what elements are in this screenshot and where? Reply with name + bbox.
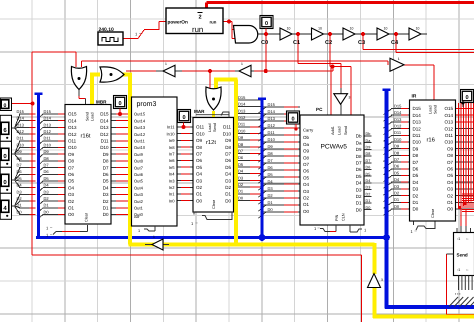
svg-text:D6: D6	[268, 165, 274, 170]
svg-text:D8: D8	[44, 156, 50, 161]
svg-text:240,10: 240,10	[99, 27, 115, 33]
svg-text:O9: O9	[447, 146, 454, 151]
svg-text:D3: D3	[413, 187, 419, 192]
svg-text:D5: D5	[238, 162, 244, 167]
svg-text:D14: D14	[100, 118, 109, 123]
svg-text:D11: D11	[394, 130, 402, 135]
svg-text:O5: O5	[447, 173, 454, 178]
svg-text:MAR: MAR	[194, 109, 205, 114]
svg-text:CLN: CLN	[342, 213, 346, 221]
svg-text:D4: D4	[238, 169, 244, 174]
svg-text:D7: D7	[366, 159, 371, 163]
svg-text:O7: O7	[68, 165, 75, 170]
svg-text:O5: O5	[196, 165, 203, 170]
svg-text:Send: Send	[213, 123, 217, 132]
svg-text:D0: D0	[103, 212, 109, 217]
svg-text:D1: D1	[225, 192, 231, 197]
svg-text:Ob: Ob	[303, 135, 310, 140]
svg-text:O6: O6	[196, 158, 203, 163]
svg-text:O0: O0	[68, 212, 75, 217]
svg-text:D7: D7	[17, 163, 23, 168]
svg-text:O4: O4	[303, 182, 310, 187]
svg-text:In11: In11	[167, 125, 175, 130]
svg-text:O14: O14	[444, 113, 453, 118]
svg-text:O2: O2	[447, 193, 454, 198]
svg-text:O2: O2	[303, 196, 310, 201]
svg-text:In1: In1	[169, 192, 175, 197]
svg-text:D9: D9	[225, 138, 231, 143]
svg-text:In10: In10	[167, 131, 176, 136]
svg-text:O11: O11	[196, 125, 205, 130]
svg-text:O0: O0	[303, 209, 310, 214]
svg-text:D15: D15	[17, 109, 25, 114]
svg-text:O8: O8	[196, 145, 203, 150]
svg-text:O8: O8	[303, 155, 310, 160]
svg-text:powerOn: powerOn	[168, 19, 188, 24]
svg-text:D11: D11	[223, 125, 231, 130]
svg-text:Send: Send	[434, 105, 438, 114]
svg-text:D6: D6	[103, 172, 109, 177]
svg-text:10: 10	[384, 27, 388, 31]
svg-text:D4: D4	[17, 183, 23, 188]
svg-text:D4: D4	[356, 181, 362, 186]
svg-text:3: 3	[381, 278, 383, 282]
svg-text:D2: D2	[225, 185, 231, 190]
svg-text:D11: D11	[238, 122, 246, 127]
svg-text:1: 1	[153, 235, 155, 239]
svg-text:Da: Da	[356, 140, 362, 145]
svg-text:D7: D7	[238, 149, 244, 154]
svg-text:D5: D5	[268, 172, 274, 177]
svg-text:Db: Db	[356, 134, 362, 139]
svg-text:Out9: Out9	[134, 152, 144, 157]
svg-text:D7: D7	[356, 161, 362, 166]
svg-text:D1: D1	[413, 200, 419, 205]
svg-text:D15: D15	[100, 112, 109, 117]
svg-text:In3: In3	[169, 178, 175, 183]
svg-text:D6: D6	[225, 158, 231, 163]
svg-text:D14: D14	[413, 113, 422, 118]
svg-text:O6: O6	[447, 167, 454, 172]
svg-text:1: 1	[241, 62, 243, 66]
svg-text:O7: O7	[447, 160, 454, 165]
svg-text:O14: O14	[68, 118, 77, 123]
svg-text:D1: D1	[366, 199, 371, 203]
svg-text:D8: D8	[366, 152, 371, 156]
svg-text:D11: D11	[413, 133, 421, 138]
svg-text:D10: D10	[238, 128, 246, 133]
svg-text:0: 0	[4, 103, 7, 109]
svg-text:O12: O12	[68, 132, 77, 137]
svg-text:10: 10	[350, 27, 354, 31]
svg-text:O7: O7	[303, 162, 310, 167]
svg-text:10: 10	[416, 27, 420, 31]
svg-text:O10: O10	[196, 131, 205, 136]
svg-text:D11: D11	[17, 136, 25, 141]
svg-text:D15: D15	[268, 102, 276, 107]
svg-text:Oa: Oa	[303, 142, 310, 147]
svg-text:Out15: Out15	[134, 112, 146, 117]
svg-text:D6: D6	[356, 167, 362, 172]
svg-text:D1: D1	[44, 203, 50, 208]
svg-text:In7: In7	[169, 152, 175, 157]
svg-text:D3: D3	[238, 175, 244, 180]
svg-text:D11: D11	[268, 130, 276, 135]
svg-text:O10: O10	[68, 145, 77, 150]
svg-text:C3: C3	[358, 40, 365, 46]
svg-text:O9: O9	[68, 152, 75, 157]
svg-text:In6: In6	[169, 158, 175, 163]
svg-text:D9: D9	[413, 146, 419, 151]
svg-text:O12: O12	[444, 126, 453, 131]
svg-text:0: 0	[182, 115, 185, 121]
svg-text:D12: D12	[268, 123, 276, 128]
svg-text:Out7: Out7	[134, 165, 144, 170]
svg-text:D4: D4	[44, 183, 50, 188]
svg-text:run: run	[210, 19, 217, 24]
svg-text:C4: C4	[391, 40, 399, 46]
svg-text:D12: D12	[238, 115, 246, 120]
svg-text:1: 1	[165, 62, 167, 66]
svg-text:D13: D13	[394, 117, 402, 122]
svg-text:D2: D2	[413, 193, 419, 198]
svg-text:O1: O1	[303, 202, 310, 207]
svg-text:D7: D7	[103, 165, 109, 170]
svg-text:prom3: prom3	[137, 101, 157, 108]
svg-text:D5: D5	[225, 165, 231, 170]
svg-text:In4: In4	[169, 172, 175, 177]
svg-text:Out11: Out11	[134, 139, 146, 144]
svg-text:D12: D12	[394, 124, 402, 129]
svg-text:D0: D0	[356, 207, 362, 212]
svg-text:Out14: Out14	[134, 118, 146, 123]
svg-text:O3: O3	[303, 189, 310, 194]
svg-text:D15: D15	[413, 106, 422, 111]
svg-text:D8: D8	[103, 159, 109, 164]
svg-text:C0: C0	[261, 40, 268, 46]
svg-text:O15: O15	[68, 112, 77, 117]
svg-text:O0: O0	[447, 207, 454, 212]
svg-text:Send: Send	[344, 126, 348, 135]
svg-text:D1: D1	[394, 197, 400, 202]
svg-text:Out4: Out4	[134, 185, 144, 190]
svg-text:D13: D13	[100, 125, 109, 130]
svg-text:D6: D6	[44, 169, 50, 174]
svg-text:D7: D7	[413, 160, 419, 165]
svg-text:O2: O2	[68, 199, 75, 204]
svg-text:D1: D1	[238, 189, 244, 194]
svg-text:Clear: Clear	[212, 199, 216, 209]
svg-text:In5: In5	[169, 165, 175, 170]
svg-text:D6: D6	[413, 167, 419, 172]
svg-text:D3: D3	[103, 192, 109, 197]
svg-text:1: 1	[138, 229, 140, 233]
svg-text:MBR: MBR	[96, 100, 107, 105]
svg-text:D10: D10	[44, 142, 52, 147]
svg-text:D8: D8	[268, 151, 274, 156]
svg-text:D14: D14	[44, 116, 52, 121]
svg-text:O1: O1	[447, 200, 454, 205]
svg-text:O1: O1	[196, 192, 203, 197]
svg-text:D11: D11	[101, 139, 109, 144]
svg-text:D10: D10	[17, 142, 25, 147]
svg-text:D3: D3	[225, 178, 231, 183]
svg-text:O4: O4	[196, 172, 203, 177]
svg-text:D0: D0	[366, 206, 371, 210]
svg-text:D10: D10	[223, 131, 232, 136]
svg-text:D6: D6	[17, 169, 23, 174]
svg-text:D3: D3	[44, 189, 50, 194]
svg-text:D14: D14	[394, 110, 402, 115]
svg-text:D0: D0	[413, 207, 419, 212]
svg-text:D5: D5	[366, 172, 371, 176]
svg-text:O8: O8	[447, 153, 454, 158]
svg-text:D8: D8	[17, 156, 23, 161]
svg-text:3: 3	[349, 96, 351, 100]
svg-text:D2: D2	[17, 196, 23, 201]
svg-text:D10: D10	[413, 140, 422, 145]
svg-text:D2: D2	[394, 191, 400, 196]
svg-text:C2: C2	[325, 40, 332, 46]
svg-text:O13: O13	[68, 125, 77, 130]
svg-text:O6: O6	[303, 169, 310, 174]
svg-text:D6: D6	[394, 164, 400, 169]
svg-text:D1: D1	[103, 206, 109, 211]
svg-text:O0: O0	[196, 198, 203, 203]
svg-text:D2: D2	[44, 196, 50, 201]
svg-text:D9: D9	[356, 147, 362, 152]
svg-text:In0: In0	[169, 198, 175, 203]
svg-text:O6: O6	[68, 172, 75, 177]
svg-text:D10: D10	[268, 137, 276, 142]
svg-text:D9: D9	[17, 149, 23, 154]
svg-text:D0: D0	[225, 198, 231, 203]
svg-text:D12: D12	[100, 132, 109, 137]
svg-text:D12: D12	[413, 126, 422, 131]
svg-text:O15: O15	[444, 106, 453, 111]
svg-text:D14: D14	[238, 102, 246, 107]
svg-text:D0: D0	[44, 209, 50, 214]
svg-text:D7: D7	[44, 163, 50, 168]
svg-text:O9: O9	[303, 149, 310, 154]
svg-text:Out6: Out6	[134, 172, 144, 177]
svg-text:O2: O2	[196, 185, 203, 190]
svg-text:Out10: Out10	[134, 145, 146, 150]
svg-text:D11: D11	[44, 136, 52, 141]
svg-text:In8: In8	[169, 145, 175, 150]
svg-text:D0: D0	[238, 195, 244, 200]
svg-text:2: 2	[199, 15, 202, 21]
svg-text:D6: D6	[238, 155, 244, 160]
svg-text:O3: O3	[447, 187, 454, 192]
svg-text:Clear: Clear	[85, 212, 89, 222]
svg-text:O5: O5	[68, 179, 75, 184]
svg-text:Out13: Out13	[134, 125, 146, 130]
svg-text:D14: D14	[268, 109, 276, 114]
svg-text:O3: O3	[196, 178, 203, 183]
svg-text:0: 0	[465, 95, 468, 101]
svg-text:D0: D0	[394, 204, 400, 209]
svg-text:D7: D7	[394, 157, 400, 162]
svg-text:10: 10	[287, 27, 291, 31]
svg-text:O3: O3	[68, 192, 75, 197]
svg-text:D3: D3	[356, 187, 362, 192]
svg-text:D3: D3	[394, 184, 400, 189]
svg-text:Carry: Carry	[303, 128, 314, 133]
svg-text:D9: D9	[103, 152, 109, 157]
svg-text:D5: D5	[44, 176, 50, 181]
svg-text:D3: D3	[268, 186, 274, 191]
svg-text:r12t: r12t	[206, 139, 216, 146]
svg-text:D0: D0	[268, 207, 274, 212]
svg-text:r16t: r16t	[81, 133, 91, 140]
svg-text:D7: D7	[225, 152, 231, 157]
svg-text:P!N: P!N	[335, 214, 339, 221]
svg-text:D4: D4	[268, 179, 274, 184]
svg-text:Db: Db	[366, 132, 371, 136]
svg-text:D4: D4	[225, 172, 231, 177]
svg-text:Out5: Out5	[134, 179, 144, 184]
svg-text:In9: In9	[169, 138, 175, 143]
svg-text:▫1: ▫1	[457, 268, 460, 272]
svg-text:D12: D12	[44, 129, 52, 134]
svg-text:▪ ▪ ▪: ▪ ▪ ▪	[455, 292, 461, 296]
svg-text:D9: D9	[366, 146, 371, 150]
svg-text:D2: D2	[356, 194, 362, 199]
svg-text:D6: D6	[366, 166, 371, 170]
svg-text:run: run	[192, 25, 203, 34]
svg-text:PC: PC	[316, 107, 323, 112]
svg-text:D15: D15	[44, 109, 52, 114]
svg-text:D8: D8	[413, 153, 419, 158]
svg-text:D12: D12	[17, 129, 25, 134]
svg-text:0: 0	[118, 101, 121, 107]
svg-text:D1: D1	[268, 200, 274, 205]
svg-text:In2: In2	[169, 185, 175, 190]
svg-text:Load: Load	[338, 127, 342, 135]
svg-text:O8: O8	[68, 159, 75, 164]
svg-text:D8: D8	[225, 145, 231, 150]
svg-text:▫1: ▫1	[457, 237, 460, 241]
svg-text:O9: O9	[196, 138, 203, 143]
svg-text:O10: O10	[444, 140, 453, 145]
svg-text:D13: D13	[268, 116, 276, 121]
svg-text:1: 1	[398, 57, 400, 61]
svg-text:D10: D10	[394, 137, 402, 142]
svg-text:D5: D5	[356, 174, 362, 179]
svg-text:Out8: Out8	[134, 159, 144, 164]
svg-text:D3: D3	[17, 189, 23, 194]
svg-text:Clear: Clear	[431, 208, 435, 218]
svg-text:O4: O4	[68, 185, 75, 190]
svg-text:D4: D4	[103, 185, 109, 190]
svg-text:Adr: Adr	[134, 215, 140, 219]
svg-text:D3: D3	[366, 186, 371, 190]
svg-text:Out3: Out3	[134, 192, 144, 197]
svg-text:Send: Send	[457, 253, 468, 258]
svg-text:D1: D1	[356, 201, 362, 206]
svg-text:O4: O4	[447, 180, 454, 185]
svg-text:O5: O5	[303, 175, 310, 180]
svg-text:D7: D7	[268, 158, 274, 163]
svg-text:D0: D0	[17, 209, 23, 214]
svg-text:D13: D13	[238, 108, 246, 113]
svg-text:D2: D2	[238, 182, 244, 187]
svg-text:10: 10	[318, 27, 322, 31]
svg-text:D9: D9	[394, 144, 400, 149]
svg-text:O13: O13	[444, 120, 453, 125]
svg-text:D9: D9	[268, 144, 274, 149]
svg-text:D4: D4	[366, 179, 371, 183]
svg-text:D2: D2	[268, 193, 274, 198]
svg-text:Load: Load	[429, 106, 433, 114]
svg-text:D2: D2	[366, 192, 371, 196]
svg-text:D5: D5	[17, 176, 23, 181]
svg-text:C1: C1	[293, 40, 300, 46]
svg-text:D15: D15	[238, 95, 246, 100]
svg-text:0: 0	[265, 21, 268, 27]
svg-text:D5: D5	[413, 173, 419, 178]
svg-text:D1: D1	[17, 203, 23, 208]
svg-text:D4: D4	[413, 180, 419, 185]
svg-text:O7: O7	[196, 152, 203, 157]
svg-text:D13: D13	[413, 120, 422, 125]
svg-text:D8: D8	[238, 142, 244, 147]
svg-text:D8: D8	[356, 154, 362, 159]
svg-text:D5: D5	[103, 179, 109, 184]
svg-text:Load: Load	[91, 113, 95, 121]
svg-text:D13: D13	[44, 122, 52, 127]
svg-text:D8: D8	[394, 150, 400, 155]
svg-text:O11: O11	[445, 133, 454, 138]
svg-text:D15: D15	[394, 103, 402, 108]
svg-text:D14: D14	[17, 116, 25, 121]
svg-text:IR: IR	[412, 94, 417, 100]
svg-text:Out2: Out2	[134, 199, 144, 204]
svg-text:D2: D2	[103, 199, 109, 204]
svg-text:0: 0	[291, 116, 294, 122]
svg-text:D5: D5	[394, 170, 400, 175]
svg-text:Load: Load	[208, 124, 212, 132]
svg-text:D4: D4	[394, 177, 400, 182]
svg-text:O1: O1	[68, 206, 75, 211]
svg-text:PCWAv5: PCWAv5	[321, 144, 348, 151]
svg-text:r16: r16	[427, 137, 435, 144]
svg-text:Out12: Out12	[134, 132, 146, 137]
svg-text:O11: O11	[68, 139, 77, 144]
svg-text:D9: D9	[238, 135, 244, 140]
svg-text:D9: D9	[44, 149, 50, 154]
svg-text:D10: D10	[100, 145, 109, 150]
svg-text:Out1: Out1	[134, 206, 144, 211]
svg-text:D13: D13	[17, 122, 25, 127]
svg-text:Add1: Add1	[331, 126, 335, 135]
svg-text:Send: Send	[86, 112, 90, 121]
